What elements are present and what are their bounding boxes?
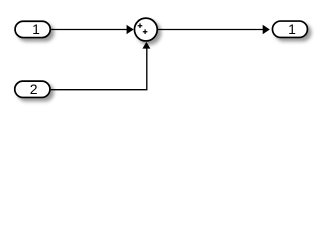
wire from inport 2 to sum (horizontal then vertical up) [51,42,151,90]
svg-text:1: 1 [32,21,40,37]
svg-text:1: 1 [288,21,296,37]
outport block 1 [272,21,307,38]
plus sign (input 2) [143,29,148,34]
svg-text:2: 2 [30,81,38,97]
inport block 1 [15,21,50,38]
wire from sum to outport [158,25,270,34]
sum block [134,18,157,41]
wire from inport 1 to sum [51,25,134,34]
plus sign (input 1) [138,23,143,28]
inport block 2 [15,81,50,98]
